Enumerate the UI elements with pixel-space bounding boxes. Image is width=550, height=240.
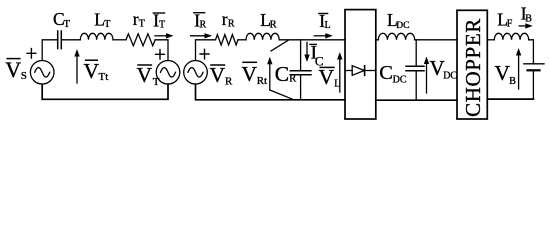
svg-text:R: R (228, 19, 235, 30)
current arrow I_R (191, 33, 212, 38)
svg-text:S: S (21, 70, 27, 82)
svg-text:F: F (507, 19, 513, 30)
source V_S (30, 61, 54, 85)
wire rectifier to L_DC (376, 39, 379, 41)
current arrow I_B (519, 23, 533, 28)
label V_Tt (84, 59, 109, 83)
svg-text:V: V (495, 61, 511, 85)
capacitor C_DC bottom lead (415, 71, 417, 100)
source V_R (184, 61, 208, 85)
wire r_T to V_T (155, 40, 168, 61)
capacitor C_DC plates (406, 66, 424, 71)
rectifier box (345, 10, 376, 119)
svg-text:r: r (133, 9, 139, 29)
svg-text:V: V (210, 63, 226, 87)
label r_R (222, 9, 235, 29)
resistor r_T (126, 34, 155, 46)
inductor L_R (246, 33, 279, 40)
label L_T (94, 9, 110, 30)
svg-text:L: L (334, 79, 340, 90)
sine in V_T (161, 68, 176, 78)
svg-text:Tt: Tt (99, 71, 109, 83)
current arrow I_C (304, 42, 309, 62)
battery bottom lead (532, 70, 534, 99)
wire L_R to rectifier (279, 39, 345, 41)
wire C_T to L_T (61, 39, 80, 41)
svg-text:V: V (84, 59, 100, 83)
svg-text:R: R (289, 74, 296, 85)
wire L_F to battery (529, 40, 534, 64)
svg-text:Rt: Rt (257, 75, 267, 87)
wire right bottom rail (487, 98, 533, 100)
svg-text:V: V (319, 65, 335, 89)
label I_C (309, 43, 323, 69)
label V_R (210, 63, 234, 87)
svg-text:R: R (225, 75, 233, 87)
capacitor C_R top lead (300, 40, 302, 71)
svg-text:T: T (139, 19, 145, 30)
label C_DC (379, 62, 407, 86)
capacitor C_R plates (290, 71, 311, 75)
inductor L_F (494, 33, 528, 40)
svg-text:T: T (153, 76, 160, 88)
svg-text:DC: DC (443, 71, 457, 82)
voltage arrow V_Rt lower diagonal (270, 90, 294, 100)
label L_R (260, 10, 276, 31)
label I_L (318, 11, 331, 31)
label V_Rt (242, 62, 268, 87)
voltage arrow V_B (516, 48, 521, 89)
label I_T (153, 10, 166, 30)
voltage arrow V_DC (424, 57, 429, 94)
svg-text:CHOPPER: CHOPPER (461, 18, 485, 117)
wire V_S bottom loop (42, 84, 168, 99)
svg-text:R: R (200, 20, 207, 31)
battery V_B long plate (524, 63, 544, 65)
svg-text:V: V (5, 57, 21, 82)
plus of V_T (156, 50, 165, 60)
current arrow I_T (155, 33, 174, 38)
label V_B (495, 61, 517, 87)
svg-text:V: V (242, 62, 258, 86)
capacitor C_R bottom lead (300, 75, 302, 100)
voltage arrow V_Rt upper diagonal (271, 40, 289, 51)
label L_DC (387, 10, 410, 31)
label I_R (193, 10, 206, 30)
label V_S (5, 57, 27, 82)
voltage arrow V_L (337, 52, 342, 92)
svg-text:C: C (275, 62, 289, 86)
svg-text:V: V (137, 63, 153, 87)
wire chopper to L_F (487, 39, 494, 41)
wire V_S top lead (42, 40, 58, 61)
capacitor C_DC top lead (415, 40, 417, 67)
wire DC bottom rail (376, 99, 457, 101)
wire L_T to r_T (113, 39, 126, 41)
plus of V_R (200, 49, 209, 59)
capacitor C_T (58, 31, 62, 49)
voltage arrow V_Tt (74, 49, 79, 83)
svg-text:T: T (159, 19, 165, 30)
label V_L (319, 65, 341, 90)
svg-text:L: L (325, 20, 331, 31)
label L_F (497, 10, 513, 30)
sine in V_S (35, 68, 50, 78)
battery V_B short plate (528, 69, 540, 71)
plus of V_S (27, 49, 36, 59)
chopper box (457, 10, 487, 119)
svg-text:DC: DC (396, 21, 409, 31)
wire r_R to L_R (238, 39, 246, 41)
resistor r_R (216, 35, 239, 45)
wire loop2 bottom rail (196, 84, 346, 100)
wire L_DC to chopper (415, 39, 457, 41)
label C_T (53, 9, 70, 30)
source V_T (156, 61, 180, 85)
svg-text:B: B (509, 76, 516, 87)
label V_T (137, 63, 160, 88)
label V_DC (430, 56, 458, 82)
svg-text:T: T (64, 19, 70, 30)
svg-text:DC: DC (393, 75, 407, 86)
diode (345, 70, 352, 72)
current arrow I_L (314, 33, 333, 38)
voltage arrow V_Rt shaft (267, 57, 272, 90)
svg-text:C: C (379, 62, 393, 84)
inductor L_T (80, 33, 113, 40)
svg-text:B: B (525, 13, 532, 24)
inductor L_DC (378, 33, 414, 40)
wire V_R top lead (196, 40, 216, 61)
svg-text:r: r (222, 9, 228, 29)
svg-text:R: R (270, 20, 277, 31)
label I_B (521, 3, 532, 24)
sine in V_R (188, 68, 203, 78)
svg-text:T: T (104, 19, 110, 30)
label r_T (133, 9, 145, 29)
label C_R (275, 62, 296, 86)
